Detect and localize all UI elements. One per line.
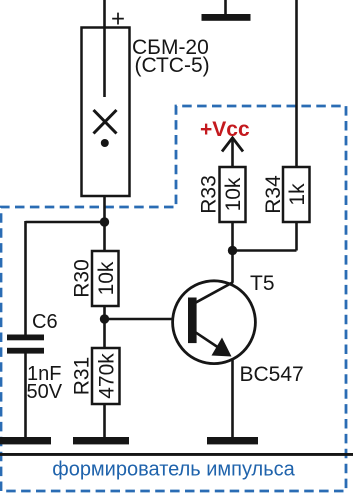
svg-text:1k: 1k bbox=[286, 183, 309, 206]
svg-text:10k: 10k bbox=[95, 261, 118, 295]
svg-text:10k: 10k bbox=[222, 177, 245, 211]
svg-text:R30: R30 bbox=[71, 259, 94, 298]
svg-text:50V: 50V bbox=[27, 381, 63, 403]
svg-text:формирователь импульса: формирователь импульса bbox=[52, 459, 295, 481]
svg-text:T5: T5 bbox=[250, 272, 275, 295]
svg-text:C6: C6 bbox=[32, 311, 58, 333]
svg-text:R34: R34 bbox=[262, 175, 285, 214]
svg-text:BC547: BC547 bbox=[240, 363, 304, 386]
svg-text:R33: R33 bbox=[198, 175, 221, 214]
svg-text:R31: R31 bbox=[71, 357, 94, 396]
svg-text:+Vcc: +Vcc bbox=[200, 118, 250, 141]
svg-text:(СТС-5): (СТС-5) bbox=[135, 54, 210, 77]
svg-text:+: + bbox=[111, 6, 125, 33]
svg-text:470k: 470k bbox=[96, 353, 119, 399]
